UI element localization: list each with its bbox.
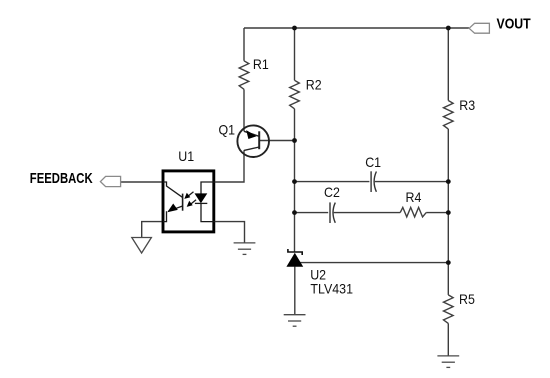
svg-text:R5: R5 bbox=[459, 291, 475, 307]
svg-text:TLV431: TLV431 bbox=[310, 281, 353, 297]
svg-text:R3: R3 bbox=[459, 98, 475, 114]
svg-text:VOUT: VOUT bbox=[497, 16, 532, 32]
svg-text:R2: R2 bbox=[306, 77, 322, 93]
svg-text:C2: C2 bbox=[324, 184, 340, 200]
svg-text:Q1: Q1 bbox=[219, 122, 236, 138]
svg-text:R1: R1 bbox=[253, 56, 269, 72]
svg-text:FEEDBACK: FEEDBACK bbox=[30, 170, 93, 187]
svg-text:U1: U1 bbox=[178, 148, 194, 164]
svg-text:R4: R4 bbox=[406, 190, 422, 206]
svg-text:C1: C1 bbox=[365, 155, 381, 171]
